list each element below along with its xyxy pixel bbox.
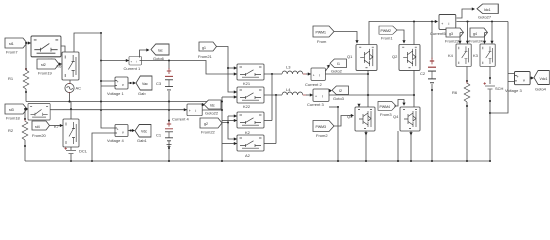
wire K2 terminal in — [222, 119, 237, 122]
wire Voltage 3 out — [530, 76, 534, 79]
node Q4 ground — [410, 160, 412, 162]
wire Current5 to Goto27 — [457, 7, 476, 18]
svg-text:From3: From3 — [380, 112, 392, 117]
node x222 ground — [221, 160, 223, 162]
From tag From24 — [469, 28, 488, 44]
svg-text:A2: A2 — [245, 153, 251, 158]
svg-text:From: From — [317, 39, 327, 44]
breaker K7 — [54, 119, 79, 147]
wire PWM4 to Q4 gate — [394, 100, 406, 107]
svg-text:Goto22: Goto22 — [205, 111, 219, 116]
wire K7 bottom to DCL — [70, 147, 72, 150]
sense loop wire right — [490, 22, 508, 114]
svg-text:g2: g2 — [204, 122, 208, 126]
vertical link K21-K2 outputs — [271, 74, 273, 121]
svg-text:L3: L3 — [286, 65, 291, 70]
node rail Q2 tap — [413, 21, 415, 23]
From tag PWM3 — [313, 121, 334, 139]
wire rail to K3 terminal — [490, 22, 493, 45]
wire Q4 bottom to ground rail — [410, 131, 412, 161]
svg-text:PWM2: PWM2 — [381, 29, 392, 33]
breaker K3 — [473, 44, 495, 66]
svg-text:g3: g3 — [449, 32, 453, 36]
wire K4 bottom — [466, 67, 468, 84]
breaker A2 — [237, 135, 264, 158]
node x222 rail upper — [221, 101, 223, 103]
svg-text:Goto2: Goto2 — [331, 69, 343, 74]
svg-text:Current 1: Current 1 — [124, 66, 141, 71]
inductor L3 — [282, 65, 306, 75]
wire stub to ground rail — [337, 107, 339, 161]
node Q4 aux ground — [397, 160, 399, 162]
wire taps to Voltage 3 — [508, 74, 515, 82]
vertical link K22-A2 outputs — [275, 95, 277, 144]
transistor Q1 — [347, 45, 377, 71]
svg-text:K2: K2 — [245, 130, 251, 135]
svg-text:PWM4: PWM4 — [380, 105, 391, 109]
wire R6 bottom to ground rail — [466, 102, 468, 161]
arrow into Current5 — [435, 20, 438, 23]
svg-text:K6: K6 — [57, 64, 63, 69]
wire K22 out to L4 — [264, 94, 282, 96]
svg-text:From2: From2 — [316, 133, 328, 138]
node stub ground — [337, 160, 339, 162]
current measurement Current 4 — [172, 104, 202, 122]
svg-text:From21: From21 — [198, 54, 213, 59]
svg-text:Current 3: Current 3 — [307, 102, 324, 107]
wire Voltage 4 out — [128, 129, 135, 132]
From tag From22 — [200, 118, 222, 135]
From tag From18 — [5, 104, 27, 121]
svg-text:Q3: Q3 — [347, 114, 353, 119]
wire A2 terminal in — [222, 142, 237, 145]
transistor Q3 — [347, 107, 375, 131]
node C2 ground — [431, 160, 433, 162]
node K7 rail tap — [69, 101, 71, 103]
wire Current 4 to Goto22 — [202, 103, 205, 106]
node K7 column — [70, 108, 72, 110]
wire K6 bottom to AC source — [69, 80, 71, 84]
svg-text:Voltage 3: Voltage 3 — [505, 88, 522, 93]
current measurement Current 3 — [307, 89, 329, 107]
svg-text:From1: From1 — [381, 36, 393, 41]
Goto tag Vac — [136, 76, 152, 96]
svg-text:PWM3: PWM3 — [316, 125, 327, 129]
wire SCH bottom to ground rail — [489, 90, 491, 162]
wire PWM3 to Q3 gate — [334, 114, 354, 126]
svg-text:K22: K22 — [243, 104, 251, 109]
node Voltage4 minus — [91, 160, 93, 162]
svg-text:Current 4: Current 4 — [172, 117, 189, 122]
return rail upper — [26, 101, 222, 103]
svg-text:DCL: DCL — [79, 149, 88, 154]
svg-text:AC: AC — [76, 86, 82, 91]
node feeder x101 — [100, 32, 102, 34]
capacitor C3 — [156, 61, 173, 103]
svg-text:st1: st1 — [9, 42, 14, 46]
svg-text:g4: g4 — [473, 32, 477, 36]
node leg B current in — [413, 94, 415, 96]
svg-text:R2: R2 — [8, 128, 14, 133]
wire R2 bottom to ground rail — [24, 140, 26, 161]
wire From18 to breaker — [25, 107, 28, 110]
Goto tag Goto2 — [330, 59, 346, 74]
wire to R2 — [24, 109, 26, 120]
node leg A current in — [367, 73, 369, 75]
voltage measurement Voltage 3 — [505, 72, 530, 94]
svg-text:Q4: Q4 — [393, 114, 399, 119]
resistor R6 — [452, 81, 470, 102]
svg-text:From22: From22 — [201, 130, 216, 135]
node K4 terminal tap — [467, 21, 469, 23]
wire PWM1 to Q1 gate — [334, 32, 359, 44]
svg-text:SCH: SCH — [495, 86, 504, 91]
From tag From20 — [32, 121, 50, 138]
wire From24 to K3 gate — [483, 33, 488, 45]
From tag From21 — [198, 42, 217, 59]
breaker K2 — [237, 112, 264, 135]
wire L3 to Current 2 — [306, 72, 311, 75]
node leg A cross — [367, 94, 369, 96]
svg-text:I1: I1 — [337, 62, 340, 66]
svg-text:st3: st3 — [9, 108, 14, 112]
transistor Q2 — [392, 45, 420, 71]
svg-text:Gab1: Gab1 — [137, 138, 148, 143]
svg-text:C1: C1 — [156, 133, 162, 138]
wire From21 to K21 and K22 gates — [217, 47, 238, 94]
breaker K22 — [237, 87, 264, 109]
wire Q2 top to rail — [413, 22, 415, 45]
wire Q3 bottom to ground rail — [365, 131, 367, 161]
node R2 top tap — [24, 108, 26, 110]
svg-text:Gab: Gab — [138, 91, 146, 96]
node R6 top — [466, 80, 468, 82]
svg-text:K3: K3 — [473, 53, 479, 58]
node DCL ground — [70, 160, 72, 162]
wire From7 to K5 — [27, 41, 31, 44]
capacitor C2 — [420, 22, 436, 162]
current measurement Current 2 — [305, 68, 325, 87]
wire K22 terminal in — [222, 95, 237, 98]
Goto tag Goto4 — [534, 71, 549, 92]
wire From19 to K6 gate — [59, 62, 62, 65]
wire From22 to K2 and A2 gates — [222, 114, 237, 140]
bridge leg A vertical — [367, 71, 369, 108]
Goto tag Goto3 — [332, 86, 348, 101]
node SCH mid — [489, 100, 491, 102]
node SCH loop — [489, 112, 491, 114]
svg-text:PWM1: PWM1 — [316, 31, 327, 35]
svg-text:From7: From7 — [6, 50, 18, 55]
svg-text:R1: R1 — [8, 76, 14, 81]
wire From20 to K7 gate — [50, 124, 64, 127]
wire L4 to Current 3 — [306, 93, 313, 96]
svg-text:K7: K7 — [54, 124, 60, 129]
wire Current1 to Goto6 — [140, 48, 150, 57]
svg-text:Idc1: Idc1 — [484, 8, 491, 12]
node C1 ground — [168, 160, 170, 162]
Goto tag Goto6 — [151, 44, 169, 61]
node SCH top — [489, 77, 491, 79]
From tag From7 — [5, 38, 27, 55]
svg-text:Goto4: Goto4 — [535, 87, 547, 92]
svg-text:From23: From23 — [445, 39, 460, 44]
node R2 — [24, 118, 26, 120]
wire Voltage 1 out — [128, 81, 136, 84]
voltage measurement Voltage 4 — [107, 125, 128, 144]
svg-text:Q1: Q1 — [347, 54, 353, 59]
Goto tag Goto22 — [204, 100, 221, 116]
resistor R1 — [8, 68, 29, 89]
svg-text:Voltage 4: Voltage 4 — [107, 138, 124, 143]
node Q3 ground — [365, 160, 367, 162]
wire rail to K4 terminal — [466, 22, 469, 45]
svg-text:I2: I2 — [339, 89, 342, 93]
svg-text:K4: K4 — [448, 53, 454, 58]
voltage measurement Voltage 1 — [107, 77, 128, 96]
From tag PWM1 — [313, 26, 334, 44]
svg-text:Current 2: Current 2 — [305, 82, 322, 87]
wire Q4 aux to ground rail — [397, 131, 399, 161]
wire K2 out — [264, 120, 272, 122]
node AC return — [69, 101, 71, 103]
node v1 tap — [100, 80, 102, 82]
bridge leg B vertical — [413, 71, 415, 108]
breaker K4 — [448, 44, 471, 66]
wire K7 top to rail — [70, 102, 72, 120]
wire R1 bottom to return rail — [25, 89, 27, 102]
current measurement Current 1 — [124, 57, 142, 72]
node L4 junction — [275, 94, 277, 96]
wire AC bottom to rail — [69, 93, 71, 102]
wire Current 2 to bridge leg A — [326, 73, 369, 75]
node x222 rail mid — [221, 109, 223, 111]
svg-text:Vac: Vac — [142, 82, 148, 86]
wire PWM2 to Q2 gate — [397, 30, 406, 44]
svg-text:L4: L4 — [286, 87, 291, 92]
resistor R2 — [8, 119, 28, 140]
svg-text:R6: R6 — [452, 90, 458, 95]
svg-text:From20: From20 — [32, 133, 47, 138]
arrow into Current 1 — [126, 59, 129, 62]
wire R1 branch — [25, 43, 27, 69]
From tag From23 — [445, 28, 464, 44]
svg-text:Vdc: Vdc — [141, 130, 147, 134]
svg-text:Voltage 1: Voltage 1 — [107, 91, 124, 96]
current measurement Current5 — [430, 15, 456, 37]
battery SCH — [484, 82, 504, 91]
node rail cross 1 — [100, 101, 102, 103]
svg-text:K21: K21 — [243, 81, 251, 86]
svg-text:From24: From24 — [469, 39, 484, 44]
breaker K6 — [57, 52, 79, 80]
node K3 terminal tap — [491, 21, 493, 23]
stub below Current 3 — [329, 106, 338, 108]
battery DCL — [65, 147, 88, 153]
wire Current 2 to Goto2 — [326, 63, 332, 71]
node on From7 wire — [25, 42, 27, 44]
node stub — [337, 106, 339, 108]
wire Current 3 to bridge leg B — [329, 94, 414, 96]
wire K21 out to L3 — [264, 73, 282, 75]
svg-text:Goto27: Goto27 — [478, 15, 492, 20]
svg-text:C2: C2 — [420, 71, 426, 76]
node R2 bottom — [24, 145, 26, 147]
node R1 bottom — [25, 91, 27, 93]
wire A2 out — [264, 143, 276, 145]
breaker K8 — [28, 104, 50, 120]
svg-text:Goto6: Goto6 — [153, 56, 165, 61]
svg-text:st4: st4 — [35, 125, 40, 129]
capacitor C1 — [156, 102, 173, 162]
ground rail bottom — [25, 160, 490, 162]
wire K3 bottom — [489, 67, 491, 85]
stub to Voltage 1 plus — [101, 81, 115, 86]
node R6 ground — [466, 160, 468, 162]
node rail C2 tap — [431, 21, 433, 23]
left feeder vertical — [101, 33, 115, 128]
wire DCL to ground rail — [70, 154, 72, 161]
svg-text:C3: C3 — [156, 81, 162, 86]
node C1 tap mid rail — [168, 109, 170, 111]
Goto tag Goto27 — [477, 4, 498, 20]
mid rail to Current 4 — [50, 108, 187, 111]
AC source — [65, 83, 81, 92]
svg-text:Vdc1: Vdc1 — [540, 77, 548, 81]
node L3 junction — [271, 73, 273, 75]
svg-text:st2: st2 — [41, 63, 46, 67]
svg-text:Goto3: Goto3 — [333, 96, 345, 101]
From tag PWM2 — [379, 26, 397, 41]
svg-text:Idc: Idc — [210, 104, 215, 108]
wire K6 right terminal up to top feeder — [74, 33, 101, 52]
From tag PWM4 — [378, 102, 396, 118]
wire Current 3 to Goto3 — [329, 89, 332, 92]
wire K5 out to K6 top — [61, 46, 65, 52]
breaker K21 — [237, 64, 264, 86]
svg-text:Current5: Current5 — [430, 31, 446, 36]
wire Voltage 4 minus to ground rail — [92, 133, 115, 161]
node rail cross 2 — [100, 109, 102, 111]
stub Q3 aux port — [358, 104, 360, 107]
node SCH ground — [489, 160, 491, 162]
svg-text:From18: From18 — [6, 116, 21, 121]
From tag From19 — [37, 59, 59, 76]
svg-text:g1: g1 — [202, 46, 206, 50]
vertical DC feeder x222 — [221, 97, 223, 161]
wire From23 to K4 gate — [458, 33, 463, 45]
Goto tag Vdc — [135, 125, 151, 144]
wire Current 4 pass-through — [202, 109, 222, 111]
wire Q1 top to DC+ rail — [369, 22, 437, 45]
breaker K5 — [31, 36, 61, 62]
svg-text:Iac: Iac — [158, 49, 163, 53]
svg-text:Q2: Q2 — [392, 54, 398, 59]
svg-text:From19: From19 — [38, 71, 53, 76]
inductor L4 — [282, 87, 306, 95]
DC+ rail after Current5 — [457, 21, 509, 23]
node R6 bottom — [466, 105, 468, 107]
node C3 top — [168, 60, 170, 62]
wire Current 1 out to K21 terminal — [140, 61, 238, 76]
node R1 top — [25, 68, 27, 70]
transistor Q4 — [393, 107, 420, 131]
